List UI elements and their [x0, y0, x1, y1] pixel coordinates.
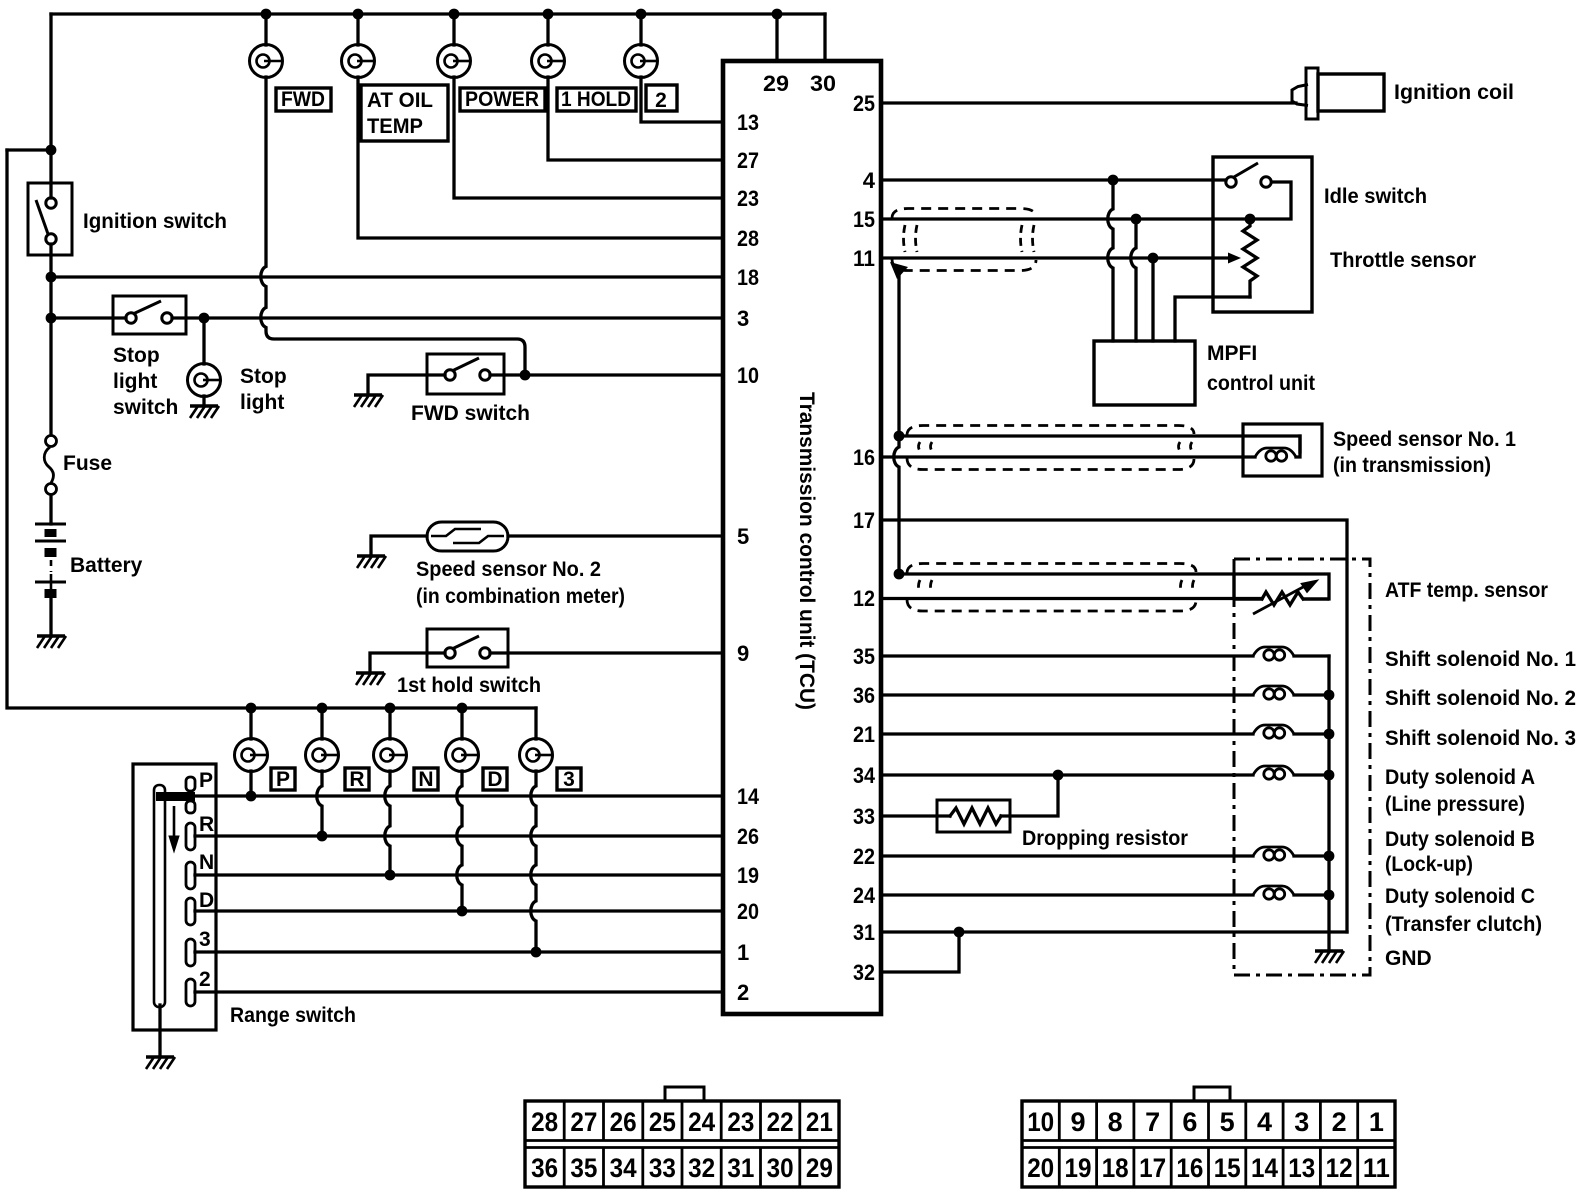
- node solenoid common junction B: [1324, 851, 1335, 862]
- svg-text:N: N: [418, 768, 433, 791]
- wire shift solenoid No. 2 to common: [1294, 693, 1329, 696]
- range lamp N: [374, 739, 407, 772]
- svg-text:10: 10: [1027, 1107, 1054, 1137]
- range switch contact N: [186, 862, 195, 889]
- svg-text:2: 2: [737, 980, 749, 1005]
- svg-text:18: 18: [737, 265, 759, 290]
- label box POWER: [460, 88, 545, 111]
- connector (TCU side) outline: [525, 1087, 839, 1187]
- svg-text:light: light: [240, 391, 284, 414]
- svg-text:29: 29: [806, 1153, 833, 1183]
- range switch contact D: [186, 898, 195, 925]
- wire pin 4 branch to MPFI control unit: [1108, 180, 1113, 341]
- svg-text:Shift solenoid No. 2: Shift solenoid No. 2: [1385, 687, 1576, 710]
- wire pin to duty solenoid C: [881, 893, 1253, 896]
- node solenoid common junction A: [1324, 770, 1335, 781]
- wire 2 lamp to pin 13: [641, 77, 723, 122]
- svg-text:R: R: [349, 768, 364, 791]
- label box N: [414, 768, 438, 790]
- svg-text:4: 4: [1257, 1107, 1272, 1137]
- wire pin to duty solenoid A: [881, 773, 1253, 776]
- svg-text:6: 6: [1182, 1107, 1197, 1137]
- wire range switch to ground: [158, 1005, 161, 1056]
- transmission control unit (TCU) box: [723, 61, 881, 1014]
- svg-text:FWD: FWD: [281, 88, 325, 111]
- svg-text:2: 2: [199, 968, 211, 991]
- svg-text:Ignition coil: Ignition coil: [1394, 81, 1514, 104]
- ATF temp. sensor box: [1234, 574, 1329, 599]
- wire branch to far-left riser: [7, 148, 51, 151]
- svg-text:35: 35: [853, 644, 875, 669]
- wire pin 15 branch to MPFI control unit: [1131, 219, 1136, 341]
- svg-text:12: 12: [1326, 1153, 1353, 1183]
- svg-text:22: 22: [767, 1107, 794, 1137]
- wire pin to shift solenoid No. 3: [881, 732, 1253, 735]
- wire pin 19: [195, 873, 723, 876]
- battery: [35, 524, 66, 598]
- wire pin 29 stub: [775, 14, 778, 61]
- connector (TCU side) grid: [525, 1101, 839, 1187]
- indicator lamp FWD: [250, 45, 283, 78]
- svg-text:Dropping resistor: Dropping resistor: [1022, 827, 1188, 850]
- svg-text:2: 2: [655, 89, 667, 112]
- svg-text:23: 23: [737, 186, 759, 211]
- svg-text:25: 25: [649, 1107, 676, 1137]
- node bus junction 1 HOLD: [543, 9, 554, 20]
- dropping resistor zigzag: [950, 808, 1001, 824]
- wire ATF temp. sensor return: [899, 574, 1329, 599]
- speed sensor No. 1 box: [1243, 424, 1322, 476]
- svg-text:P: P: [276, 768, 290, 791]
- svg-text:17: 17: [853, 508, 875, 533]
- wire pin 12 to ATF temp. sensor: [881, 597, 1262, 600]
- svg-text:FWD switch: FWD switch: [411, 402, 530, 425]
- svg-text:Idle switch: Idle switch: [1324, 185, 1427, 208]
- wire pin 18: [51, 275, 723, 278]
- svg-text:24: 24: [853, 883, 876, 908]
- wire 1 HOLD lamp feed: [546, 14, 549, 45]
- svg-text:3: 3: [737, 306, 749, 331]
- wire duty solenoid C to common: [1294, 893, 1329, 896]
- svg-text:9: 9: [1070, 1107, 1085, 1137]
- svg-text:3: 3: [1294, 1107, 1309, 1137]
- svg-text:32: 32: [853, 960, 875, 985]
- svg-text:13: 13: [737, 110, 759, 135]
- indicator lamp 2: [625, 45, 658, 78]
- node junction pin 15 / MPFI: [1131, 214, 1142, 225]
- wire duty solenoid B to common: [1294, 854, 1329, 857]
- svg-text:Shift solenoid No. 3: Shift solenoid No. 3: [1385, 727, 1576, 750]
- svg-text:28: 28: [531, 1107, 558, 1137]
- duty solenoid A coil: [1253, 766, 1294, 779]
- wire shield drain line: [894, 272, 899, 574]
- svg-text:22: 22: [853, 844, 875, 869]
- connector (harness side) grid: [1022, 1101, 1395, 1187]
- node bus junction AT OIL TEMP: [353, 9, 364, 20]
- wire POWER lamp to pin 23: [454, 77, 723, 198]
- wire pin 3 from stop light switch: [172, 316, 723, 319]
- svg-text:20: 20: [1027, 1153, 1054, 1183]
- svg-text:control unit: control unit: [1207, 372, 1315, 395]
- svg-text:3: 3: [563, 768, 575, 791]
- shift solenoid No. 3 coil: [1253, 725, 1294, 738]
- svg-text:23: 23: [727, 1107, 754, 1137]
- wire speed sensor No.1 return: [899, 436, 1300, 452]
- svg-text:Battery: Battery: [70, 554, 143, 577]
- svg-text:Fuse: Fuse: [63, 452, 112, 475]
- indicator lamp POWER: [438, 45, 471, 78]
- wire pin 1: [195, 950, 723, 953]
- wire AT OIL TEMP lamp feed: [356, 14, 359, 45]
- svg-text:36: 36: [853, 683, 875, 708]
- node junction idle switch / throttle sensor: [1245, 214, 1256, 225]
- connector (harness side) outline: [1022, 1087, 1395, 1187]
- node bus junction pin 29: [772, 9, 783, 20]
- svg-text:32: 32: [688, 1153, 715, 1183]
- svg-text:11: 11: [853, 246, 875, 271]
- node junction lamp R / pin 26: [317, 831, 328, 842]
- ground battery: [37, 636, 66, 648]
- stop light switch: [113, 296, 186, 334]
- label box 1 HOLD: [557, 88, 636, 111]
- wire FWD switch to ground: [368, 375, 445, 394]
- svg-text:31: 31: [853, 920, 875, 945]
- wire range lamp 3 drop to pin 1 wire: [531, 771, 536, 952]
- svg-text:9: 9: [737, 641, 749, 666]
- svg-text:30: 30: [767, 1153, 794, 1183]
- wire pin 11 to throttle sensor wiper: [881, 256, 1230, 259]
- MPFI control unit box: [1094, 341, 1195, 405]
- range switch: [133, 764, 216, 1030]
- svg-text:28: 28: [737, 226, 759, 251]
- node solenoid common junction 2: [1324, 690, 1335, 701]
- wire range lamp P drop to pin 14 wire: [249, 771, 252, 796]
- svg-text:AT OIL: AT OIL: [367, 89, 433, 112]
- node solenoid common junction 3: [1324, 729, 1335, 740]
- indicator lamp 1 HOLD: [532, 45, 565, 78]
- svg-text:Duty solenoid C: Duty solenoid C: [1385, 885, 1535, 908]
- wire pin 15 to throttle sensor: [881, 217, 1250, 220]
- wire idle switch output to pin 15 node: [1250, 182, 1291, 219]
- node junction ignition feed: [46, 145, 57, 156]
- wire AT OIL TEMP lamp to pin 28: [358, 77, 723, 238]
- wire pin 10: [490, 373, 723, 376]
- svg-text:11: 11: [1363, 1153, 1390, 1183]
- ground 1st hold switch: [356, 673, 385, 685]
- svg-text:Ignition switch: Ignition switch: [83, 210, 227, 233]
- ATF temp. sensor resistor: [1262, 592, 1303, 605]
- wire far-left riser to range lamp bus: [7, 150, 536, 708]
- svg-text:POWER: POWER: [465, 88, 539, 111]
- label box FWD: [276, 88, 331, 111]
- svg-text:5: 5: [737, 524, 749, 549]
- node junction stop light lamp: [199, 313, 210, 324]
- svg-text:1: 1: [1369, 1107, 1384, 1137]
- wire pin 33 to dropping resistor: [881, 814, 950, 817]
- range lamp 3: [520, 739, 553, 772]
- indicator lamp AT OIL TEMP: [342, 45, 375, 78]
- svg-text:20: 20: [737, 899, 759, 924]
- svg-text:light: light: [113, 370, 157, 393]
- node junction pin 18 feed: [46, 272, 57, 283]
- svg-text:29: 29: [763, 71, 789, 96]
- stop light lamp: [188, 364, 221, 397]
- svg-text:(Line pressure): (Line pressure): [1385, 793, 1525, 816]
- wire 1st hold switch to ground: [370, 653, 445, 671]
- label box D: [483, 768, 507, 790]
- svg-text:31: 31: [727, 1153, 754, 1183]
- svg-text:16: 16: [853, 445, 875, 470]
- range switch wiper bar: [156, 792, 195, 801]
- label box AT OIL TEMP: [361, 85, 448, 141]
- node junction shield drain / ATF return: [894, 569, 905, 580]
- svg-text:(Transfer clutch): (Transfer clutch): [1385, 913, 1542, 936]
- wire stop light switch feed: [51, 316, 126, 319]
- wire dropping resistor to pin 34 wire: [1001, 775, 1058, 816]
- wire pin 9: [490, 651, 723, 654]
- range lamp R: [306, 739, 339, 772]
- svg-text:ATF temp. sensor: ATF temp. sensor: [1385, 579, 1548, 602]
- wire stop light lamp drop: [202, 318, 205, 364]
- wire 1 HOLD lamp to pin 27: [548, 77, 723, 160]
- wire battery to ground: [49, 598, 52, 636]
- node bus junction FWD: [261, 9, 272, 20]
- svg-text:30: 30: [810, 71, 836, 96]
- node junction lamp 3 / pin 1: [531, 947, 542, 958]
- svg-text:3: 3: [199, 928, 211, 951]
- 1st hold switch: [427, 629, 508, 667]
- shield drain arrow: [890, 262, 908, 279]
- duty solenoid C coil: [1253, 886, 1294, 899]
- wire pin to shift solenoid No. 1: [881, 654, 1253, 657]
- wire pin to shift solenoid No. 2: [881, 693, 1253, 696]
- wire pin to duty solenoid B: [881, 854, 1253, 857]
- dropping resistor box: [937, 800, 1010, 832]
- svg-text:33: 33: [853, 804, 875, 829]
- wire FWD lamp feed: [264, 14, 267, 45]
- svg-text:12: 12: [853, 586, 875, 611]
- svg-text:7: 7: [1145, 1107, 1160, 1137]
- shielded cable speed sensor No. 1: [907, 426, 1194, 470]
- svg-text:D: D: [199, 889, 214, 912]
- ignition switch: [28, 183, 72, 255]
- svg-text:P: P: [199, 769, 213, 792]
- duty solenoid B coil: [1253, 847, 1294, 860]
- wire pin 14: [195, 794, 723, 797]
- node junction FWD lamp/pin 10: [520, 370, 531, 381]
- range switch contact 2: [186, 979, 195, 1006]
- node junction pin 31 / pin 32: [954, 927, 965, 938]
- node solenoid common junction C: [1324, 890, 1335, 901]
- FWD switch: [427, 354, 504, 394]
- ATF temp. sensor arrow: [1253, 580, 1318, 614]
- svg-text:8: 8: [1108, 1107, 1123, 1137]
- svg-text:Speed sensor No. 1: Speed sensor No. 1: [1333, 428, 1516, 451]
- svg-text:14: 14: [737, 784, 760, 809]
- node range bus junction R: [317, 703, 328, 714]
- svg-text:Shift solenoid No. 1: Shift solenoid No. 1: [1385, 648, 1576, 671]
- svg-text:Duty solenoid A: Duty solenoid A: [1385, 766, 1535, 789]
- idle switch contacts: [1226, 163, 1271, 187]
- wire pin 2: [195, 990, 723, 993]
- wire pin 4 to idle switch: [881, 178, 1226, 181]
- wire ignition feed vertical: [49, 14, 52, 198]
- svg-text:34: 34: [853, 763, 876, 788]
- svg-text:1: 1: [737, 940, 749, 965]
- svg-text:Speed sensor No. 2: Speed sensor No. 2: [416, 558, 601, 581]
- node junction lamp P / pin 14: [246, 791, 257, 802]
- wire range lamp D drop to pin 20 wire: [457, 771, 462, 911]
- wire speed sensor coil to return: [1296, 436, 1300, 457]
- svg-text:25: 25: [853, 91, 875, 116]
- label box R: [345, 768, 369, 790]
- node junction pin 4 / MPFI: [1108, 175, 1119, 186]
- wire pin 26: [195, 834, 723, 837]
- svg-text:19: 19: [1065, 1153, 1092, 1183]
- wire pin 11 branch to MPFI control unit: [1151, 258, 1154, 341]
- wire range lamp N drop to pin 19 wire: [385, 771, 390, 875]
- wire pin 25 to ignition coil: [881, 101, 1296, 104]
- svg-text:15: 15: [1214, 1153, 1241, 1183]
- svg-text:33: 33: [649, 1153, 676, 1183]
- svg-text:Duty solenoid B: Duty solenoid B: [1385, 828, 1535, 851]
- wire pin 5: [508, 534, 723, 537]
- wire POWER lamp feed: [452, 14, 455, 45]
- node range bus junction P: [246, 703, 257, 714]
- svg-text:TEMP: TEMP: [367, 115, 423, 138]
- svg-text:Transmission control unit (TCU: Transmission control unit (TCU): [795, 392, 818, 710]
- svg-text:Throttle sensor: Throttle sensor: [1330, 249, 1476, 272]
- wire pin 30 stub: [823, 14, 826, 61]
- range switch selector arrow: [169, 806, 179, 852]
- svg-text:MPFI: MPFI: [1207, 342, 1257, 365]
- wire shift solenoid No. 1 to common: [1294, 654, 1329, 657]
- svg-text:21: 21: [806, 1107, 833, 1137]
- svg-text:35: 35: [570, 1153, 597, 1183]
- throttle sensor resistor: [1243, 219, 1257, 297]
- node range bus junction N: [385, 703, 396, 714]
- wire stop light lamp to ground: [202, 396, 205, 406]
- ground speed sensor No. 2: [357, 556, 386, 568]
- node junction dropping resistor / pin 34: [1053, 770, 1064, 781]
- wire shift solenoid No. 3 to common: [1294, 732, 1329, 735]
- svg-text:13: 13: [1288, 1153, 1315, 1183]
- svg-text:4: 4: [863, 168, 876, 193]
- node junction shield drain / speed sensor return: [894, 431, 905, 442]
- svg-text:(in transmission): (in transmission): [1333, 454, 1491, 477]
- svg-text:26: 26: [610, 1107, 637, 1137]
- node range bus junction D: [457, 703, 468, 714]
- shielded cable ATF temp. sensor: [907, 564, 1196, 612]
- node bus junction 2: [636, 9, 647, 20]
- shielded cable pins 15/11: [892, 209, 1036, 271]
- idle switch / throttle sensor box: [1213, 157, 1312, 312]
- svg-text:24: 24: [688, 1107, 715, 1137]
- shift solenoid No. 2 coil: [1253, 686, 1294, 699]
- speed sensor No. 2: [427, 522, 508, 551]
- wire range lamp feeds: [249, 708, 252, 739]
- svg-text:27: 27: [570, 1107, 597, 1137]
- wire pin 31 to ground node: [881, 930, 1347, 933]
- svg-text:1st hold switch: 1st hold switch: [397, 674, 541, 697]
- svg-text:36: 36: [531, 1153, 558, 1183]
- svg-text:GND: GND: [1385, 947, 1432, 970]
- wire pin 32 to pin 31: [881, 932, 959, 972]
- wire speed sensor No.2 to ground: [371, 536, 427, 554]
- svg-text:26: 26: [737, 824, 759, 849]
- svg-text:Stop: Stop: [240, 365, 287, 388]
- node junction lamp D / pin 20: [457, 906, 468, 917]
- wire ignition switch to stop/pin18 junctions: [49, 244, 52, 433]
- wire pin 16 to speed sensor No.1: [881, 455, 1255, 458]
- fuse: [44, 436, 56, 495]
- throttle sensor wiper arrow: [1228, 253, 1241, 264]
- label box P: [271, 768, 295, 790]
- svg-text:5: 5: [1220, 1107, 1235, 1137]
- wire 2 lamp feed: [639, 14, 642, 45]
- svg-text:19: 19: [737, 863, 759, 888]
- svg-text:Stop: Stop: [113, 344, 160, 367]
- ignition coil: [1292, 68, 1384, 119]
- speed sensor No. 1 coil: [1255, 448, 1296, 461]
- svg-text:Range switch: Range switch: [230, 1004, 356, 1027]
- svg-text:16: 16: [1176, 1153, 1203, 1183]
- node junction stop light switch feed: [46, 313, 57, 324]
- svg-text:(Lock-up): (Lock-up): [1385, 853, 1473, 876]
- svg-text:(in combination meter): (in combination meter): [416, 585, 625, 608]
- svg-text:1 HOLD: 1 HOLD: [561, 88, 631, 111]
- ground stop light: [190, 406, 219, 418]
- wire throttle sensor low end to MPFI control unit: [1175, 297, 1250, 341]
- range lamp P: [235, 739, 268, 772]
- svg-text:17: 17: [1139, 1153, 1166, 1183]
- shift solenoid No. 1 coil: [1253, 647, 1294, 660]
- wire FWD lamp to pin 10 branch: [261, 77, 525, 375]
- wire range lamp R drop to pin 26 wire: [317, 771, 322, 836]
- svg-text:2: 2: [1332, 1107, 1347, 1137]
- wire fuse to battery: [49, 495, 52, 524]
- label box 2: [646, 85, 677, 111]
- svg-text:27: 27: [737, 148, 759, 173]
- wire duty solenoid A to common: [1294, 773, 1329, 776]
- range lamp D: [446, 739, 479, 772]
- wire top supply bus: [51, 12, 825, 15]
- svg-text:N: N: [199, 851, 214, 874]
- node junction pin 11 / MPFI: [1148, 253, 1159, 264]
- range switch contact R: [186, 823, 195, 850]
- node bus junction POWER: [449, 9, 460, 20]
- range switch contact 3: [186, 939, 195, 966]
- svg-text:15: 15: [853, 207, 875, 232]
- range switch contact P: [186, 777, 195, 813]
- ground FWD switch: [354, 395, 383, 407]
- wire range lamp 3 feed: [534, 708, 537, 739]
- svg-text:switch: switch: [113, 396, 178, 419]
- svg-text:14: 14: [1251, 1153, 1278, 1183]
- svg-text:18: 18: [1102, 1153, 1129, 1183]
- svg-text:21: 21: [853, 722, 875, 747]
- wire pin 20: [195, 909, 723, 912]
- node junction lamp N / pin 19: [385, 870, 396, 881]
- svg-text:D: D: [487, 768, 502, 791]
- ground range switch: [146, 1057, 175, 1069]
- wire solenoid common to ground: [1327, 656, 1330, 951]
- svg-text:10: 10: [737, 363, 759, 388]
- svg-text:34: 34: [610, 1153, 637, 1183]
- label box 3: [557, 768, 581, 790]
- transmission housing boundary (dash-dot): [1234, 559, 1370, 975]
- svg-text:R: R: [199, 813, 214, 836]
